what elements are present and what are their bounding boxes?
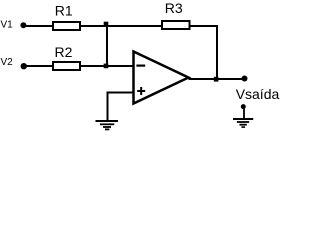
wire V2 to R2 (24, 65, 53, 67)
op-amp plus pin symbol (137, 87, 145, 95)
svg-text:Vsaída: Vsaída (236, 86, 280, 102)
op-amp minus pin symbol (136, 64, 145, 66)
svg-text:R2: R2 (55, 44, 73, 60)
svg-text:R3: R3 (165, 0, 183, 16)
terminal dot V1 (20, 22, 26, 28)
svg-text:R1: R1 (55, 2, 73, 18)
wire op-amp output to Vsaida terminal (189, 78, 245, 80)
resistor R1 (53, 22, 80, 30)
terminal dot V2 (21, 63, 27, 69)
output node junction dot (214, 77, 219, 82)
op-amp U1 (134, 52, 189, 104)
svg-text:V2: V2 (1, 57, 14, 68)
wire R1 to R3 through node A (80, 25, 163, 27)
wire V1 to R1 (23, 25, 53, 27)
wire op-amp non-inverting input to ground (108, 93, 135, 121)
wire R2 through node B to op-amp inverting input (80, 65, 134, 67)
svg-text:V1: V1 (1, 19, 14, 30)
node B junction dot (104, 64, 109, 69)
node A junction dot (104, 22, 109, 27)
wire node A down to node B (106, 26, 108, 66)
resistor R2 (53, 62, 80, 70)
terminal dot Vsaida (242, 76, 248, 82)
wire R3 to output node (feedback) (190, 26, 217, 79)
ground symbol at Vsaida (233, 104, 253, 127)
resistor R3 (162, 21, 190, 29)
ground symbol at op-amp input (96, 121, 119, 129)
